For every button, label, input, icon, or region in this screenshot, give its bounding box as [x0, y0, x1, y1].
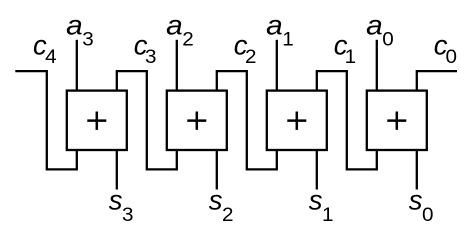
svg-text:1: 1 — [322, 205, 334, 226]
svg-text:s: s — [209, 184, 223, 215]
wire a3 input — [76, 40, 78, 91]
wire c0 carry-in to U0 — [417, 71, 457, 91]
plus sign in U0 — [387, 112, 406, 130]
wire a2 input — [176, 40, 178, 91]
svg-text:0: 0 — [382, 29, 394, 50]
svg-text:s: s — [109, 184, 123, 215]
plus sign in U1 — [287, 112, 306, 130]
plus sign in U3 — [87, 112, 106, 130]
adder U0 (bit 0 full-adder box) — [367, 91, 427, 150]
adder U1 (bit 1 full-adder box) — [267, 91, 327, 150]
wire s1 output — [316, 150, 318, 190]
svg-text:s: s — [409, 184, 423, 215]
adder U3 (bit 3 full-adder box) — [67, 91, 127, 150]
svg-text:a: a — [366, 10, 383, 41]
svg-text:4: 4 — [45, 47, 57, 68]
svg-text:1: 1 — [282, 29, 294, 50]
wire c3 carry from U2 to U3 — [117, 71, 177, 169]
svg-text:0: 0 — [422, 205, 434, 226]
plus sign in U2 — [187, 112, 206, 130]
svg-text:1: 1 — [345, 47, 357, 68]
svg-text:3: 3 — [145, 47, 157, 68]
wire c4 carry-out of U3 — [15, 71, 77, 169]
wire a0 input — [376, 40, 378, 91]
svg-text:2: 2 — [222, 205, 234, 226]
wire s0 output — [416, 150, 418, 190]
wire a1 input — [276, 40, 278, 91]
svg-text:0: 0 — [446, 47, 458, 68]
svg-text:3: 3 — [82, 29, 94, 50]
wire c2 carry from U1 to U2 — [217, 71, 277, 169]
svg-text:2: 2 — [245, 47, 257, 68]
svg-text:a: a — [166, 10, 183, 41]
svg-text:2: 2 — [182, 29, 194, 50]
adder U2 (bit 2 full-adder box) — [167, 91, 227, 150]
wire s2 output — [216, 150, 218, 190]
wire c1 carry from U0 to U1 — [317, 71, 377, 169]
svg-text:a: a — [266, 10, 283, 41]
svg-text:3: 3 — [122, 205, 134, 226]
wire s3 output — [116, 150, 118, 190]
svg-text:a: a — [66, 10, 83, 41]
svg-text:s: s — [309, 184, 323, 215]
